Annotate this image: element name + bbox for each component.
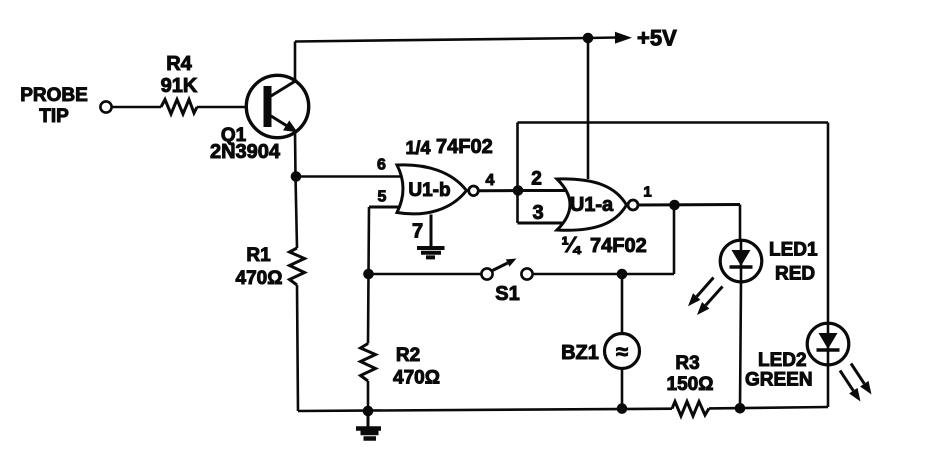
wire pin2 input xyxy=(518,189,569,192)
svg-text:2: 2 xyxy=(531,169,542,190)
wire R1 to bottom rail xyxy=(297,285,298,411)
LED2 cathode bar xyxy=(817,348,840,351)
svg-text:74F02: 74F02 xyxy=(436,136,493,158)
resistor R1 zigzag xyxy=(290,248,305,285)
wire S1 node to switch xyxy=(369,273,482,276)
LED2 emission arrow right xyxy=(851,364,864,384)
svg-text:LED1: LED1 xyxy=(769,240,818,261)
svg-text:6: 6 xyxy=(377,157,386,174)
terminal probe tip circle xyxy=(100,101,111,112)
svg-text:R4: R4 xyxy=(166,53,192,75)
LED2 triangle xyxy=(819,333,838,349)
LED2 inner wire xyxy=(827,324,830,364)
resistor R3 zigzag xyxy=(672,402,709,417)
svg-text:1/4: 1/4 xyxy=(405,138,430,158)
svg-text:GREEN: GREEN xyxy=(745,370,813,391)
svg-text:U1-b: U1-b xyxy=(408,180,450,201)
wire LED1 top xyxy=(739,205,742,242)
switch S1 right contact xyxy=(521,268,532,279)
LED1 inner wire xyxy=(740,241,743,281)
node emitter junction xyxy=(291,171,302,182)
svg-text:≈: ≈ xyxy=(616,339,628,364)
wire switch to output branch xyxy=(533,273,674,276)
wire pin4 output xyxy=(479,189,519,192)
wire emitter node to pin 6 xyxy=(296,175,406,178)
node BZ1 bottom rail junction xyxy=(617,403,628,414)
svg-text:74F02: 74F02 xyxy=(590,235,647,257)
wire R2 branch top xyxy=(367,274,370,344)
svg-text:BZ1: BZ1 xyxy=(561,342,599,364)
svg-text:TIP: TIP xyxy=(39,106,69,127)
svg-text:S1: S1 xyxy=(495,283,519,305)
svg-text:470Ω: 470Ω xyxy=(393,368,440,389)
+5V arrowhead xyxy=(615,32,632,44)
wire pin5 down to S1 node xyxy=(367,207,370,274)
wire R2 to rail xyxy=(367,381,370,411)
LED1 emission arrow upper xyxy=(697,278,714,297)
gate U1-a NOR xyxy=(557,179,627,230)
gate U1-a output bubble xyxy=(628,200,638,210)
switch S1 arm arrowhead xyxy=(506,259,517,267)
node pin4 junction xyxy=(513,185,524,196)
resistor R2 zigzag xyxy=(361,344,376,382)
svg-text:LED2: LED2 xyxy=(758,350,807,371)
svg-text:R1: R1 xyxy=(246,245,271,266)
svg-text:7: 7 xyxy=(412,221,423,243)
ground main stub xyxy=(367,411,370,427)
wire bottom rail right xyxy=(709,407,828,408)
LED2 circle xyxy=(807,323,849,365)
svg-text:¼: ¼ xyxy=(561,232,581,257)
svg-text:5: 5 xyxy=(378,189,387,206)
node output junction xyxy=(669,200,680,211)
wire pin5 input xyxy=(369,206,404,209)
wire LED2 bottom xyxy=(827,364,830,407)
wire feedback top xyxy=(518,121,829,124)
wire emitter vertical to node xyxy=(294,131,297,177)
LED1 triangle xyxy=(732,250,751,266)
wire collector vertical xyxy=(294,42,297,82)
svg-text:RED: RED xyxy=(775,264,815,285)
wire LED1 bottom xyxy=(740,281,741,408)
wire +5V rail down to U1-a top xyxy=(587,38,590,179)
wire probe tip to R4 xyxy=(112,106,161,109)
LED1 cathode bar xyxy=(730,265,753,268)
node S1 left junction xyxy=(363,269,374,280)
wire BZ1 top xyxy=(621,274,624,334)
transistor Q1 emitter diagonal xyxy=(271,116,296,132)
transistor Q1 circle xyxy=(246,75,308,137)
transistor Q1 base bar xyxy=(264,86,272,127)
switch S1 left contact xyxy=(481,268,492,279)
wire bottom rail left xyxy=(298,409,672,411)
transistor Q1 emitter arrowhead xyxy=(283,120,298,132)
svg-text:1: 1 xyxy=(643,183,651,200)
svg-text:4: 4 xyxy=(486,172,495,189)
gate U1-b NOR xyxy=(397,165,467,214)
wire BZ1 bottom xyxy=(621,369,624,409)
switch S1 arm xyxy=(493,263,508,271)
svg-text:U1-a: U1-a xyxy=(570,194,614,216)
LED2 emission arrow left xyxy=(840,371,853,391)
node ground rail junction xyxy=(363,406,374,417)
resistor R4 zigzag xyxy=(161,100,197,115)
wire pin3 input xyxy=(518,222,566,225)
LED1 emission arrow lower xyxy=(706,287,723,306)
wire right vertical to LED2 xyxy=(827,123,830,325)
svg-text:R2: R2 xyxy=(396,345,420,366)
wire input box vertical xyxy=(516,123,519,224)
wire up to output node xyxy=(673,205,676,274)
buzzer BZ1 circle xyxy=(605,334,640,369)
svg-text:470Ω: 470Ω xyxy=(236,268,283,289)
wire output pin1 xyxy=(638,203,740,207)
svg-text:3: 3 xyxy=(532,202,543,224)
gate U1-b output bubble xyxy=(469,186,479,196)
wire R4 to base xyxy=(197,106,264,109)
svg-text:PROBE: PROBE xyxy=(20,85,88,106)
svg-text:91K: 91K xyxy=(161,75,198,97)
node LED1 rail junction xyxy=(735,403,746,414)
wire top +5V rail xyxy=(295,38,617,42)
node top rail junction xyxy=(583,33,594,44)
svg-text:2N3904: 2N3904 xyxy=(210,141,281,163)
ground pin7 bars xyxy=(417,248,445,257)
pin 7 stub xyxy=(430,215,433,248)
wire R1 branch vertical top xyxy=(296,177,298,249)
transistor Q1 collector diagonal xyxy=(271,80,297,96)
svg-text:+5V: +5V xyxy=(637,26,677,51)
svg-text:150Ω: 150Ω xyxy=(667,374,714,395)
LED1 circle xyxy=(720,240,762,282)
svg-text:R3: R3 xyxy=(675,353,699,374)
ground main bars xyxy=(356,429,381,439)
node BZ1 top junction xyxy=(617,269,628,280)
